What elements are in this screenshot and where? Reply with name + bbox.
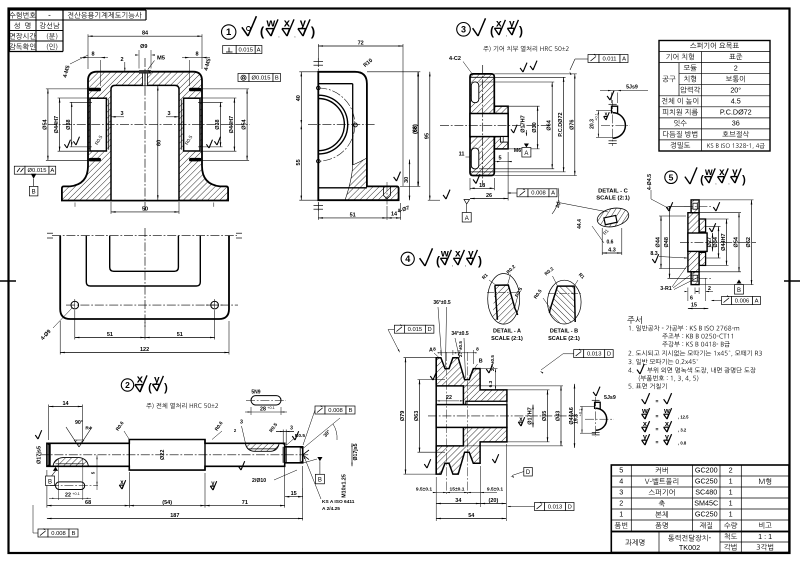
svg-text:0.013: 0.013 <box>548 504 563 510</box>
svg-text:187: 187 <box>170 513 179 519</box>
svg-text:): ) <box>478 254 482 268</box>
svg-text:90°: 90° <box>75 420 83 426</box>
cover dims left <box>660 216 662 269</box>
svg-text:GC200: GC200 <box>695 466 718 475</box>
svg-text:2: 2 <box>729 466 733 475</box>
svg-text:A: A <box>622 56 626 62</box>
svg-text:54: 54 <box>468 513 475 519</box>
dim 8 right <box>182 57 210 59</box>
cover plate <box>688 213 699 272</box>
centerline horizontal <box>48 124 250 126</box>
pulley dims left <box>405 358 407 474</box>
datum A gear bore <box>524 144 529 148</box>
plan inner cavity 50 <box>110 236 179 272</box>
note heat treat gear <box>483 46 568 52</box>
svg-text:40: 40 <box>296 95 302 101</box>
dim 30 side right <box>409 160 411 201</box>
svg-text:(: ( <box>436 254 440 268</box>
svg-text:, 3.2: , 3.2 <box>678 428 687 433</box>
groove centerlines <box>446 352 448 494</box>
svg-text:+0.1: +0.1 <box>267 406 275 410</box>
svg-text:P.C.DØ72: P.C.DØ72 <box>720 107 752 116</box>
cover bore <box>688 233 707 251</box>
svg-text:8.3: 8.3 <box>650 251 657 257</box>
svg-text:95: 95 <box>424 133 430 139</box>
pulley bottom dims <box>435 477 437 521</box>
svg-text:3-R1: 3-R1 <box>660 286 672 292</box>
svg-text:34°±0.5: 34°±0.5 <box>451 331 468 337</box>
shaft bottom dims <box>47 505 129 507</box>
gear dims left <box>417 72 419 187</box>
dim d38 left <box>71 102 73 147</box>
svg-text:): ) <box>519 24 523 38</box>
surf checks gear <box>520 68 523 72</box>
svg-text:0.008: 0.008 <box>51 531 66 537</box>
datum B left <box>31 174 37 179</box>
svg-text:Ø44H7: Ø44H7 <box>54 116 60 133</box>
svg-text:68: 68 <box>85 500 91 506</box>
svg-text:1: 1 <box>226 27 232 38</box>
dim 50 bottom <box>111 211 179 213</box>
svg-text:SM45C: SM45C <box>694 499 718 508</box>
left keyseat profile below <box>56 482 85 490</box>
dim 14 <box>49 406 83 408</box>
svg-text:8: 8 <box>476 347 479 353</box>
svg-text:34: 34 <box>455 498 462 504</box>
dim 51 right plan <box>145 337 215 339</box>
tol frame 0.006 A cover <box>722 297 732 305</box>
cover spigot bottom <box>699 252 706 265</box>
keyway strip <box>466 401 507 404</box>
svg-text:DETAIL - C: DETAIL - C <box>598 189 629 195</box>
svg-text:9.5±0.1: 9.5±0.1 <box>416 487 433 493</box>
svg-text:5Js9: 5Js9 <box>626 85 638 91</box>
dim d38 right <box>220 102 222 147</box>
datum B right <box>317 457 322 461</box>
svg-text:5: 5 <box>669 172 674 182</box>
bolt hole right <box>211 301 219 309</box>
housing bore cavity <box>111 85 179 200</box>
dim 3 right <box>174 116 179 118</box>
side bolt circle arc <box>318 88 355 161</box>
svg-text:Ø44H7: Ø44H7 <box>229 116 235 133</box>
svg-text:, 0.8: , 0.8 <box>678 441 687 446</box>
svg-text:51: 51 <box>350 212 356 218</box>
DETAIL C balloon <box>595 205 630 229</box>
svg-text:,: , <box>506 32 507 38</box>
svg-text:Ø9: Ø9 <box>140 44 147 50</box>
svg-text:3: 3 <box>167 111 170 117</box>
svg-text:Ø62: Ø62 <box>746 237 752 247</box>
svg-text:15±0.1: 15±0.1 <box>450 487 465 493</box>
svg-text:w: w <box>265 18 275 30</box>
svg-text:Ø63: Ø63 <box>414 411 420 421</box>
break line <box>345 158 367 200</box>
svg-text:y: y <box>300 18 307 30</box>
svg-text:2: 2 <box>125 380 130 390</box>
dim 8 left <box>80 57 108 59</box>
dim d54 right <box>246 89 248 160</box>
shaft left end face thick <box>48 443 50 466</box>
shaft axis <box>40 454 310 456</box>
svg-text:1: 1 <box>619 510 623 519</box>
svg-text:15: 15 <box>291 491 297 497</box>
svg-text:Ø35: Ø35 <box>542 411 548 421</box>
svg-text:5Js9: 5Js9 <box>604 395 616 401</box>
svg-text:0.006: 0.006 <box>735 298 750 304</box>
svg-text:B: B <box>275 75 279 81</box>
svg-text:36°±0.5: 36°±0.5 <box>433 300 450 306</box>
svg-text:-: - <box>48 11 51 20</box>
svg-text:Ø0.015: Ø0.015 <box>251 75 270 81</box>
snap ring grooves (black bars) <box>89 88 101 92</box>
svg-text:GC250: GC250 <box>695 510 718 519</box>
svg-text:Ø43: Ø43 <box>556 411 562 421</box>
svg-text:0.013: 0.013 <box>587 352 602 358</box>
M5 tapped hole top <box>143 72 148 86</box>
svg-text:36: 36 <box>732 119 740 128</box>
svg-text:6: 6 <box>690 296 693 302</box>
svg-text:44.4: 44.4 <box>577 219 583 229</box>
shaft chamfers <box>47 443 50 445</box>
svg-text:DETAIL - A: DETAIL - A <box>493 329 521 335</box>
svg-text:Ø44: Ø44 <box>656 236 662 247</box>
svg-text:3: 3 <box>461 24 466 34</box>
svg-text:,: , <box>715 180 716 186</box>
datum D box <box>524 468 533 477</box>
svg-text:Ø54: Ø54 <box>242 118 248 129</box>
surface symbols part2 <box>135 385 140 392</box>
plan view outline <box>60 236 229 319</box>
svg-text:18: 18 <box>479 183 485 189</box>
svg-text:22: 22 <box>446 395 452 401</box>
tol frame perp <box>223 46 237 54</box>
dim 51 side bottom <box>318 217 387 219</box>
shaft outline <box>47 440 303 471</box>
side bore arcs <box>318 95 347 154</box>
centerline vertical <box>144 58 146 212</box>
svg-text:x: x <box>719 167 725 178</box>
svg-text:M10x1.25: M10x1.25 <box>342 474 348 498</box>
svg-text:2: 2 <box>734 63 738 72</box>
svg-text:,: , <box>465 262 466 268</box>
svg-text:(: ( <box>700 174 704 186</box>
svg-text:Ø38: Ø38 <box>66 119 72 129</box>
svg-text:30: 30 <box>404 177 410 183</box>
dim 14 side bottom <box>387 217 401 219</box>
svg-text:x: x <box>137 374 144 386</box>
svg-text:0.011: 0.011 <box>602 56 616 62</box>
svg-text:122: 122 <box>140 347 149 353</box>
cover dims right <box>712 233 714 251</box>
svg-text:5: 5 <box>91 471 96 474</box>
rim chamfer lines <box>470 76 494 78</box>
svg-text:,: , <box>278 33 279 39</box>
surf checks pulley <box>486 369 489 373</box>
tol frame concentric <box>238 74 249 82</box>
plan inner step 84 <box>86 236 200 286</box>
svg-text:SC480: SC480 <box>695 488 717 497</box>
info table <box>9 10 146 52</box>
svg-text:26: 26 <box>486 193 492 199</box>
svg-text:A: A <box>551 191 555 197</box>
svg-text:4: 4 <box>619 477 623 486</box>
cover centerlines <box>680 241 756 243</box>
svg-text:2/Ø10: 2/Ø10 <box>252 478 266 484</box>
svg-text:2: 2 <box>708 286 711 292</box>
svg-text:0.008: 0.008 <box>531 191 546 197</box>
cover bottom tab <box>691 272 699 285</box>
svg-text:(68): (68) <box>413 124 419 134</box>
svg-text:y: y <box>468 249 474 260</box>
svg-text:+0.1: +0.1 <box>72 492 80 496</box>
tol frames pulley <box>394 325 404 333</box>
svg-text:A: A <box>50 168 54 174</box>
svg-text:, 12.5: , 12.5 <box>678 415 689 420</box>
svg-text:3: 3 <box>240 420 243 426</box>
centering mark left <box>0 280 16 282</box>
gear centerlines <box>482 65 484 185</box>
svg-text:72: 72 <box>358 41 364 47</box>
center drill callout <box>66 427 79 447</box>
svg-text:Ø48: Ø48 <box>664 237 670 247</box>
svg-text:51: 51 <box>177 332 183 338</box>
svg-text:M5: M5 <box>157 56 166 62</box>
svg-text:3: 3 <box>290 426 293 432</box>
svg-text:Ø22: Ø22 <box>160 450 166 460</box>
svg-text:=: = <box>656 399 659 405</box>
svg-text:4.5: 4.5 <box>731 96 741 105</box>
note heat treat shaft <box>146 403 218 409</box>
svg-text:M6: M6 <box>514 148 521 154</box>
svg-text:SCALE (2:1): SCALE (2:1) <box>596 196 630 202</box>
svg-text:B: B <box>349 408 353 414</box>
right keyseat profile above <box>251 396 281 405</box>
svg-text:1: 1 <box>729 488 733 497</box>
right keyway on shaft <box>245 444 279 452</box>
web relief slots <box>471 82 479 103</box>
svg-text:(: ( <box>148 382 152 394</box>
left keyway on shaft <box>53 458 88 466</box>
side view foot hatch <box>345 158 399 200</box>
svg-text:A 2/4.25: A 2/4.25 <box>322 506 340 512</box>
svg-text:y: y <box>732 167 738 178</box>
tol frame 0.008 B bottom left <box>38 529 48 537</box>
gear bore keyway detail (half view) <box>613 113 626 139</box>
surface symbols part3 <box>473 28 478 36</box>
seat lip lines <box>108 100 110 150</box>
svg-text:4-C2: 4-C2 <box>449 56 461 62</box>
svg-text:22: 22 <box>65 492 71 498</box>
tol frame parallel left <box>14 166 25 174</box>
svg-text:Ø44H7: Ø44H7 <box>721 233 727 250</box>
dim 22 web <box>440 400 459 402</box>
detail C leaders <box>556 202 608 212</box>
svg-text:71: 71 <box>242 500 248 506</box>
svg-text:51: 51 <box>107 332 113 338</box>
svg-text:x: x <box>455 249 461 260</box>
svg-text:1 : 1: 1 : 1 <box>758 532 772 541</box>
svg-text:GC250: GC250 <box>695 477 718 486</box>
dim d44H7 left <box>59 98 61 151</box>
dim 51 left plan <box>75 337 145 339</box>
surface symbols part5 <box>685 177 690 184</box>
datum A below gear <box>464 200 470 205</box>
svg-text:=: = <box>656 440 659 446</box>
svg-text:A: A <box>465 216 469 222</box>
svg-text:w: w <box>641 406 648 415</box>
svg-text:5: 5 <box>619 466 623 475</box>
svg-text:A: A <box>429 348 433 354</box>
svg-text:8: 8 <box>433 347 436 353</box>
bearing seat left <box>90 98 106 151</box>
M5 hole circles side <box>317 86 321 90</box>
base projection ticks <box>74 203 76 207</box>
svg-text:(54): (54) <box>162 500 172 506</box>
svg-text:=: = <box>656 427 659 433</box>
svg-text:B: B <box>32 190 36 196</box>
bearing seat right <box>184 98 200 151</box>
housing front view outline (hatched section) <box>62 72 228 201</box>
svg-text:Ø76: Ø76 <box>569 119 575 129</box>
datum A implied line <box>0 166 14 170</box>
svg-text:Ø0.015: Ø0.015 <box>27 168 46 174</box>
bolt hole left <box>71 301 79 309</box>
svg-text:6.3: 6.3 <box>488 380 494 387</box>
dim 40 side <box>300 72 302 125</box>
dim 60 cavity <box>157 86 159 200</box>
notes title <box>627 316 642 324</box>
svg-text:2: 2 <box>619 499 623 508</box>
svg-text:w: w <box>440 249 449 260</box>
pulley axis <box>428 415 578 417</box>
svg-text:14: 14 <box>391 212 398 218</box>
pulley left face <box>435 358 437 474</box>
plan hole centerline <box>66 304 224 306</box>
step lines <box>128 443 130 466</box>
svg-text:Ø54: Ø54 <box>734 236 740 247</box>
pulley bore keyway detail (half view) <box>596 408 607 430</box>
svg-text:R4: R4 <box>85 426 91 432</box>
keyway notch <box>595 402 601 409</box>
dim 15 right <box>285 496 303 498</box>
svg-text:27°±0.5: 27°±0.5 <box>458 341 463 357</box>
side centerlines <box>317 58 319 212</box>
cover spigot top <box>699 219 706 232</box>
gear rim section <box>470 74 494 176</box>
plan centerline horizontal top <box>52 235 237 237</box>
svg-text:): ) <box>311 24 315 39</box>
surface symbols part4 <box>420 258 425 266</box>
dim d54 left <box>47 89 49 160</box>
cover bottom dims <box>687 288 689 302</box>
svg-text:Ø64: Ø64 <box>547 119 553 130</box>
svg-text:D: D <box>526 470 531 476</box>
parts list table <box>611 465 789 532</box>
gear dims right <box>537 106 539 149</box>
svg-text:4: 4 <box>405 254 410 264</box>
svg-text:4-Ø4.5: 4-Ø4.5 <box>647 174 653 190</box>
gear hub section <box>494 106 508 149</box>
svg-text:0.008: 0.008 <box>328 408 343 414</box>
end face arrow <box>303 450 309 455</box>
cover top tab <box>691 200 699 213</box>
svg-text:Ø54: Ø54 <box>42 118 48 129</box>
svg-text:,: , <box>452 262 453 268</box>
svg-text:0.015: 0.015 <box>408 327 423 333</box>
centering mark right <box>784 280 800 282</box>
tol frame 0.008 B right <box>315 406 325 414</box>
svg-text:Ø38: Ø38 <box>215 119 221 129</box>
gear bore <box>470 114 508 137</box>
dim (68) side right <box>417 72 419 187</box>
dim 55 side <box>300 125 302 201</box>
svg-text:x: x <box>284 18 291 30</box>
svg-text:,: , <box>294 33 295 39</box>
centerline cross marks <box>47 232 53 234</box>
svg-text:B: B <box>72 531 76 537</box>
svg-text:x: x <box>604 112 607 118</box>
svg-text:A: A <box>524 151 528 157</box>
svg-text:DETAIL - B: DETAIL - B <box>550 329 578 335</box>
spot face boss <box>139 70 151 74</box>
datum B left <box>53 467 58 471</box>
gear dim 18 <box>470 187 494 189</box>
tol frame 0.011 A gear <box>588 55 599 63</box>
svg-text:(: ( <box>490 24 494 38</box>
roughness equivalence rows <box>642 399 645 404</box>
svg-text:4.3: 4.3 <box>608 248 616 254</box>
surf checks shaft <box>35 435 38 439</box>
svg-text:w: w <box>663 406 670 415</box>
svg-text:Ø17js5: Ø17js5 <box>37 446 43 464</box>
svg-text:P.C.DØ72: P.C.DØ72 <box>558 112 564 136</box>
pulley top half section <box>436 358 507 405</box>
svg-text:Ø34: Ø34 <box>713 236 719 247</box>
foot hole <box>383 186 385 195</box>
part label 3 <box>457 23 471 37</box>
dim 3 groove <box>282 430 284 446</box>
svg-text:15: 15 <box>691 303 697 309</box>
part label 4 <box>401 252 414 265</box>
svg-text:w: w <box>704 167 713 178</box>
svg-text:Ø17js5: Ø17js5 <box>353 443 359 460</box>
svg-text:5N9: 5N9 <box>251 390 260 396</box>
svg-text:50: 50 <box>142 206 148 212</box>
svg-text:0.015: 0.015 <box>238 47 253 53</box>
dim 5Js9 <box>611 93 613 104</box>
svg-text:B: B <box>737 288 741 294</box>
svg-text:Ø79: Ø79 <box>400 411 406 421</box>
svg-text:+0.1: +0.1 <box>595 113 599 121</box>
gear keyway <box>500 137 508 143</box>
svg-text:): ) <box>164 382 168 394</box>
gear dim 26 <box>470 198 508 200</box>
svg-text:55: 55 <box>296 159 302 165</box>
svg-text:(20): (20) <box>489 498 499 504</box>
svg-text:Ø17H7: Ø17H7 <box>528 407 534 424</box>
svg-text:B: B <box>48 479 52 485</box>
dim d44H7 right <box>233 98 235 151</box>
svg-text:1: 1 <box>729 510 733 519</box>
svg-text:TK002: TK002 <box>679 543 700 552</box>
plan centerline vertical <box>144 228 146 327</box>
svg-text:5: 5 <box>498 156 501 162</box>
part label 5 <box>665 171 677 183</box>
svg-text:D: D <box>568 504 572 510</box>
svg-text:20°: 20° <box>730 85 741 94</box>
dim 122 plan <box>60 352 229 354</box>
